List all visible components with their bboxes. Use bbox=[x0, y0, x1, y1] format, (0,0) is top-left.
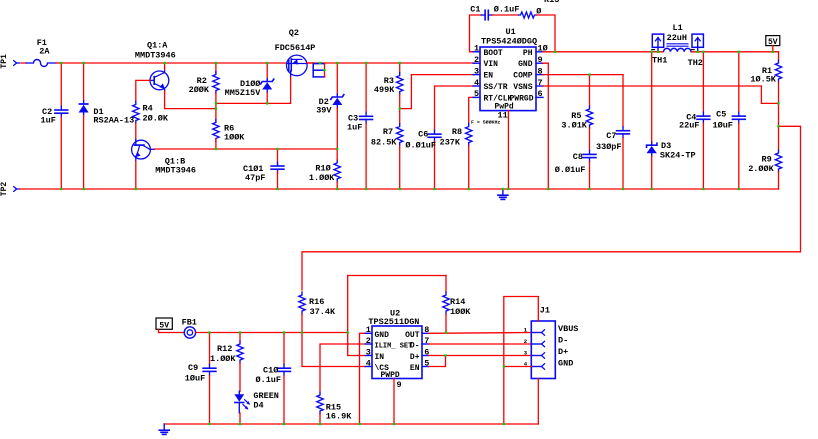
wire R7 bottom bbox=[399, 146, 401, 190]
svg-text:11: 11 bbox=[498, 111, 508, 121]
wire D1 top bbox=[83, 63, 85, 101]
svg-text:1uF: 1uF bbox=[347, 123, 362, 133]
svg-text:R8: R8 bbox=[452, 127, 462, 137]
junction PH TH1 bbox=[657, 51, 659, 53]
svg-text:TH1: TH1 bbox=[652, 55, 667, 65]
junction gnd2 R15 bbox=[319, 423, 321, 425]
wire OUT net bbox=[429, 332, 532, 335]
svg-text:D+: D+ bbox=[410, 353, 420, 362]
wire collector row bbox=[154, 148, 337, 150]
wire R4 to Q1:B base bbox=[135, 124, 137, 141]
resistor R14 bbox=[443, 292, 449, 314]
svg-text:C1Ø: C1Ø bbox=[263, 365, 278, 375]
svg-text:VSNS: VSNS bbox=[513, 83, 532, 92]
U1 right pin stubs bbox=[536, 51, 543, 53]
svg-text:Q1:A: Q1:A bbox=[147, 40, 168, 50]
J1 pin contacts bbox=[531, 332, 541, 334]
wire R5 top bbox=[589, 75, 591, 106]
svg-text:2: 2 bbox=[474, 55, 479, 65]
capacitor C101 bbox=[277, 162, 279, 166]
svg-text:R4: R4 bbox=[143, 104, 153, 114]
transistor Q2 bbox=[287, 55, 308, 76]
svg-text:R1Ø: R1Ø bbox=[315, 163, 330, 173]
connector J1 box bbox=[531, 321, 555, 379]
svg-text:IN: IN bbox=[375, 353, 385, 362]
wire C3 top bbox=[365, 63, 367, 112]
svg-text:GREEN: GREEN bbox=[253, 391, 279, 401]
junction gnd C101 bbox=[276, 188, 278, 190]
svg-text:1: 1 bbox=[474, 44, 479, 54]
wire D4 bottom bbox=[239, 413, 241, 424]
port TP1 bbox=[13, 60, 16, 66]
junction vrail R12 bbox=[239, 331, 241, 333]
wire C10 top bbox=[283, 333, 285, 365]
zener D100 bbox=[266, 79, 268, 82]
svg-text:5V: 5V bbox=[159, 321, 169, 330]
wire C9 top bbox=[209, 333, 211, 365]
svg-text:Ø.1uF: Ø.1uF bbox=[256, 375, 282, 385]
transistor Q1:A bbox=[150, 71, 169, 90]
svg-text:39V: 39V bbox=[316, 105, 332, 115]
svg-text:MMDT3946: MMDT3946 bbox=[155, 165, 196, 175]
svg-text:TPS2511DGN: TPS2511DGN bbox=[368, 317, 419, 327]
wire 5V stub bbox=[772, 46, 774, 52]
svg-text:5: 5 bbox=[474, 89, 479, 99]
capacitor C5 bbox=[738, 112, 740, 116]
wire fuse to rail bbox=[56, 62, 61, 64]
wire C5 bottom bbox=[738, 123, 740, 189]
junction gnd2 C9 bbox=[208, 423, 210, 425]
svg-text:FB1: FB1 bbox=[182, 318, 197, 328]
transistor Q1:B bbox=[132, 140, 151, 159]
svg-text:PH: PH bbox=[523, 49, 533, 58]
svg-text:R12: R12 bbox=[217, 344, 232, 354]
junction gnd D1 bbox=[82, 188, 84, 190]
wire J1 pin4 net bbox=[504, 366, 532, 368]
svg-text:COMP: COMP bbox=[513, 72, 532, 81]
wire Q1:B emitter to ground bbox=[135, 161, 137, 189]
junction R9 branch bbox=[777, 125, 779, 127]
svg-text:MMDT3946: MMDT3946 bbox=[135, 51, 176, 61]
svg-text:VIN: VIN bbox=[484, 60, 499, 69]
svg-text:D4: D4 bbox=[253, 401, 263, 411]
resistor R4 bbox=[133, 102, 139, 124]
svg-text:1ØØK: 1ØØK bbox=[224, 132, 245, 142]
svg-text:TP1: TP1 bbox=[0, 54, 9, 69]
junction PH R13 bbox=[554, 51, 556, 53]
junction OUT R14 bbox=[445, 331, 447, 333]
resistor R10 bbox=[334, 160, 340, 182]
junction gnd U1 pad bbox=[507, 188, 509, 190]
wire EN net U2 bbox=[429, 356, 446, 367]
junction drain bar 2 bbox=[323, 69, 325, 71]
svg-text:1.ØØK: 1.ØØK bbox=[210, 354, 236, 364]
junction rail C2 bbox=[60, 62, 62, 64]
wire Q1:A collector to rail bbox=[164, 63, 166, 69]
wire output rail bbox=[691, 51, 779, 53]
svg-text:BOOT: BOOT bbox=[484, 49, 503, 58]
junction gnd2 C10 bbox=[283, 423, 285, 425]
svg-text:SS/TR: SS/TR bbox=[484, 83, 508, 92]
wire R2-R6 mid bbox=[215, 94, 217, 123]
svg-text:MM5Z15V: MM5Z15V bbox=[225, 88, 262, 98]
Q2 drain pin bars bbox=[312, 63, 314, 77]
svg-text:C6: C6 bbox=[418, 129, 428, 139]
junction emitter row bbox=[215, 107, 217, 109]
wire input rail right of Q2 bbox=[307, 62, 475, 64]
wire IN net bbox=[348, 275, 446, 277]
svg-text:22uH: 22uH bbox=[667, 33, 687, 43]
wire C9 bottom bbox=[209, 375, 211, 424]
wire rail Q2 to drain bars bbox=[307, 62, 313, 64]
svg-text:1uF: 1uF bbox=[41, 116, 56, 126]
resistor R6 bbox=[213, 119, 219, 141]
capacitor C2 bbox=[60, 106, 62, 110]
capacitor C7 bbox=[622, 127, 624, 131]
svg-text:4: 4 bbox=[474, 78, 479, 88]
junction vrail IN bbox=[347, 331, 349, 333]
wire RT/CLK net bbox=[469, 97, 475, 123]
junction gnd U1 GND bbox=[547, 188, 549, 190]
wire J1 shell top bbox=[504, 297, 539, 425]
test point TH2 bbox=[692, 34, 703, 47]
resistor R8 bbox=[466, 124, 472, 146]
junction VSNS R1 bbox=[777, 102, 779, 104]
svg-text:GND: GND bbox=[375, 331, 390, 340]
svg-text:D-: D- bbox=[558, 336, 568, 346]
fuse F1 bbox=[26, 62, 33, 64]
svg-text:EN: EN bbox=[410, 364, 420, 373]
wire EN net bbox=[400, 75, 475, 109]
capacitor C9 bbox=[209, 364, 211, 368]
wire R15 bottom bbox=[319, 414, 321, 424]
ground under U1 bbox=[502, 189, 504, 195]
ground bottom left bbox=[163, 424, 165, 430]
wire gate row bbox=[216, 77, 291, 104]
junction gate row D100 bbox=[266, 102, 268, 104]
wire C101 bottom bbox=[277, 172, 279, 190]
svg-text:SK24-TP: SK24-TP bbox=[660, 151, 696, 161]
svg-text:C5: C5 bbox=[716, 110, 726, 120]
wire IN net vertical bbox=[348, 276, 366, 356]
resistor R3 bbox=[397, 73, 403, 95]
wire GND net U1 bbox=[543, 63, 548, 189]
wire SS/TR net bbox=[435, 86, 476, 130]
LED D4 bbox=[238, 391, 240, 394]
power port 5V input bbox=[156, 318, 172, 329]
svg-text:RS2AA-13: RS2AA-13 bbox=[93, 116, 134, 126]
svg-text:ILIM_ SET: ILIM_ SET bbox=[375, 343, 413, 351]
svg-text:R16: R16 bbox=[309, 297, 324, 307]
wire 5V rail bbox=[196, 332, 348, 334]
svg-text:3.Ø1K: 3.Ø1K bbox=[561, 121, 587, 131]
svg-text:R14: R14 bbox=[450, 297, 465, 307]
svg-text:Q2: Q2 bbox=[289, 28, 299, 38]
junction gnd R8 bbox=[468, 188, 470, 190]
svg-text:D+: D+ bbox=[558, 347, 568, 357]
wire R12 to D4 bbox=[239, 363, 241, 392]
resistor R12 bbox=[237, 341, 243, 363]
junction COMP R5 bbox=[588, 73, 590, 75]
junction rail C3 bbox=[365, 62, 367, 64]
svg-text:2A: 2A bbox=[39, 47, 50, 57]
wire input rail bbox=[61, 62, 286, 64]
U2 right pin stubs bbox=[422, 332, 429, 334]
junction rail R2 bbox=[215, 62, 217, 64]
wire R1 top bbox=[778, 52, 780, 60]
diode D3 bbox=[651, 142, 653, 145]
junction gnd2 D4 bbox=[239, 423, 241, 425]
svg-text:2: 2 bbox=[366, 336, 371, 346]
wire D2 bottom bbox=[336, 108, 338, 149]
wire C10 bottom bbox=[283, 375, 285, 424]
resistor R16 bbox=[299, 292, 305, 314]
capacitor C6 bbox=[434, 130, 436, 134]
wire D100 top bbox=[266, 63, 268, 81]
zener D2 bbox=[336, 94, 338, 97]
junction PH TH2 bbox=[697, 51, 699, 53]
svg-text:1ØuF: 1ØuF bbox=[185, 374, 205, 384]
junction rail D100 bbox=[266, 62, 268, 64]
svg-text:F = 5ØØKHz: F = 5ØØKHz bbox=[471, 119, 500, 126]
wire R3 top bbox=[399, 63, 401, 73]
resistor R7 bbox=[397, 124, 403, 146]
resistor R9 bbox=[775, 150, 781, 172]
inductor L1 bbox=[664, 48, 692, 51]
junction gate row R2R6 bbox=[215, 102, 217, 104]
svg-text:C8: C8 bbox=[573, 152, 583, 162]
wire feedback branch bbox=[302, 126, 801, 290]
wire R14 bottom bbox=[445, 314, 447, 333]
wire D+ net bbox=[429, 355, 532, 357]
junction gnd symbol bbox=[502, 188, 504, 190]
svg-text:Ø.Ø1uF: Ø.Ø1uF bbox=[555, 165, 586, 175]
capacitor C1 bbox=[481, 14, 485, 16]
junction gnd C7 bbox=[622, 188, 624, 190]
op-amp U2 TPS2511DGN box bbox=[372, 326, 422, 379]
svg-text:EN: EN bbox=[484, 72, 494, 81]
wire ground rail bbox=[20, 188, 779, 190]
junction drain bar 1 bbox=[319, 62, 321, 64]
wire R2 top bbox=[215, 63, 217, 74]
resistor R5 bbox=[586, 106, 592, 128]
svg-text:33ØpF: 33ØpF bbox=[596, 142, 622, 152]
junction gnd2 J1 bbox=[503, 423, 505, 425]
svg-text:82.5K: 82.5K bbox=[371, 137, 397, 147]
wire C1 to R13 bbox=[492, 14, 518, 16]
svg-text:TPS5424ØDGQ: TPS5424ØDGQ bbox=[481, 36, 537, 46]
junction collector row D2 bbox=[336, 148, 338, 150]
svg-text:3: 3 bbox=[366, 347, 371, 357]
wire R9 bottom bbox=[778, 172, 780, 189]
wire D- net bbox=[429, 343, 532, 345]
svg-text:GND: GND bbox=[558, 358, 573, 368]
svg-text:3: 3 bbox=[474, 66, 479, 76]
wire C8 bottom bbox=[589, 162, 591, 189]
U2 left pin stubs bbox=[365, 332, 372, 334]
svg-text:22uF: 22uF bbox=[679, 121, 699, 131]
junction vrail C9 bbox=[208, 331, 210, 333]
svg-text:2Ø.ØK: 2Ø.ØK bbox=[143, 114, 169, 124]
wire C6 bottom bbox=[434, 141, 436, 189]
wire R16 bottom bbox=[301, 314, 303, 333]
wire U2 pad stub bbox=[393, 379, 395, 425]
svg-text:2.ØØK: 2.ØØK bbox=[748, 164, 774, 174]
svg-text:1ØuF: 1ØuF bbox=[713, 121, 733, 131]
junction gnd C2 bbox=[60, 188, 62, 190]
junction gnd C3 bbox=[365, 188, 367, 190]
wire R10 bottom bbox=[336, 182, 338, 189]
wire C4 top bbox=[702, 52, 704, 112]
svg-text:47pF: 47pF bbox=[245, 173, 265, 183]
svg-text:1ØØK: 1ØØK bbox=[450, 307, 471, 317]
svg-text:C1: C1 bbox=[470, 4, 480, 14]
svg-text:9: 9 bbox=[397, 380, 402, 390]
wire Q1:A base to R4 bbox=[136, 80, 150, 101]
wire J1 shell bottom bbox=[537, 379, 539, 425]
wire C2 bottom bbox=[60, 117, 62, 189]
capacitor C3 bbox=[365, 112, 367, 116]
junction rail R3 bbox=[399, 62, 401, 64]
svg-text:499K: 499K bbox=[374, 85, 395, 95]
junction PH 5V bbox=[772, 51, 774, 53]
fuse F1 lead red bbox=[21, 62, 26, 64]
svg-text:J1: J1 bbox=[540, 306, 550, 316]
svg-text:D-: D- bbox=[410, 342, 420, 351]
wire C7 bottom bbox=[622, 138, 624, 189]
wire C2 top bbox=[60, 63, 62, 106]
diode D1 bbox=[83, 101, 85, 104]
U1 left pin stubs bbox=[473, 51, 480, 53]
junction rail Q1A bbox=[163, 62, 165, 64]
wire C4 bottom bbox=[702, 123, 704, 189]
junction gnd D3 bbox=[651, 188, 653, 190]
wire D1 bottom bbox=[83, 116, 85, 190]
junction rail D2 bbox=[336, 62, 338, 64]
junction J1 pin4 bbox=[503, 365, 505, 367]
wire U1 pad to ground bbox=[507, 111, 509, 189]
svg-text:PWPD: PWPD bbox=[381, 371, 400, 380]
wire R1 bottom bbox=[778, 82, 780, 103]
svg-text:9: 9 bbox=[538, 55, 543, 65]
test point TH1 bbox=[652, 34, 663, 47]
svg-text:Ø.1uF: Ø.1uF bbox=[494, 4, 520, 14]
svg-text:TP2: TP2 bbox=[0, 182, 9, 197]
svg-text:C7: C7 bbox=[606, 131, 616, 141]
wire R5 to C8 bbox=[589, 128, 591, 150]
wire COMP net bbox=[543, 74, 623, 76]
svg-text:37.4K: 37.4K bbox=[310, 307, 336, 317]
wire PH rail bbox=[543, 51, 664, 53]
resistor R15 bbox=[317, 392, 323, 414]
junction gnd Q1B bbox=[135, 188, 137, 190]
wire R14 top bbox=[445, 276, 447, 293]
wire R6 bottom bbox=[215, 139, 217, 149]
svg-text:GND: GND bbox=[518, 60, 533, 69]
op-amp U1 TPS54240DGQ box bbox=[480, 47, 536, 111]
junction gnd R10 bbox=[336, 188, 338, 190]
svg-text:C9: C9 bbox=[188, 363, 198, 373]
wire CS net bbox=[302, 333, 365, 367]
svg-text:1.ØØK: 1.ØØK bbox=[309, 173, 335, 183]
wire C3 bottom bbox=[365, 124, 367, 190]
ferrite bead FB1 bbox=[184, 327, 195, 338]
svg-text:1: 1 bbox=[366, 325, 371, 335]
junction collector row C101 bbox=[276, 148, 278, 150]
svg-text:4: 4 bbox=[366, 358, 371, 368]
svg-text:TH2: TH2 bbox=[688, 58, 703, 68]
capacitor C4 bbox=[702, 112, 704, 116]
junction gnd C6 bbox=[433, 188, 435, 190]
svg-text:1Ø.5K: 1Ø.5K bbox=[750, 75, 776, 85]
svg-text:R13: R13 bbox=[544, 0, 559, 5]
wire C101 top bbox=[277, 149, 279, 164]
junction gnd2 pad bbox=[393, 423, 395, 425]
wire R1-R9 mid bbox=[778, 103, 780, 150]
svg-text:FDC5614P: FDC5614P bbox=[275, 43, 316, 53]
junction gnd C8 bbox=[588, 188, 590, 190]
wire U2 GND net bbox=[360, 333, 366, 424]
wire D100 bottom bbox=[266, 93, 268, 104]
wire Q2 drain tie bbox=[324, 63, 326, 77]
wire bottom ground rail bbox=[164, 423, 538, 425]
svg-text:OUT: OUT bbox=[405, 331, 420, 340]
svg-text:6: 6 bbox=[538, 89, 543, 99]
junction D+ EN bbox=[444, 354, 446, 356]
junction PH D3 bbox=[651, 51, 653, 53]
capacitor C10 bbox=[283, 364, 285, 368]
power port 5V output bbox=[766, 36, 780, 46]
svg-text:L1: L1 bbox=[673, 23, 683, 33]
resistor R1 bbox=[775, 60, 781, 82]
wire R8 bottom bbox=[468, 146, 470, 189]
svg-text:7: 7 bbox=[538, 78, 543, 88]
junction gnd C4 bbox=[702, 188, 704, 190]
wire D2 top bbox=[336, 63, 338, 94]
wire R10 top bbox=[336, 149, 338, 160]
wire D3 top bbox=[651, 52, 653, 142]
wire VSNS net bbox=[543, 86, 779, 103]
junction R3 EN bbox=[399, 107, 401, 109]
svg-text:VBUS: VBUS bbox=[558, 324, 578, 334]
wire D3 bottom bbox=[651, 156, 653, 189]
svg-text:R7: R7 bbox=[383, 127, 393, 137]
capacitor C8 bbox=[589, 151, 591, 155]
resistor R13 bbox=[519, 12, 537, 18]
wire C7 top bbox=[622, 75, 624, 127]
wire Q1:A emitter row bbox=[165, 91, 216, 109]
port TP2 bbox=[13, 186, 16, 192]
wire R12 top bbox=[239, 333, 241, 342]
junction gnd R7 bbox=[399, 188, 401, 190]
wire C5 top bbox=[738, 52, 740, 112]
junction collector row R6 bbox=[215, 148, 217, 150]
junction PH C4 bbox=[702, 51, 704, 53]
junction gnd2 U2GND bbox=[358, 423, 360, 425]
wire 5V to FB1 bbox=[159, 329, 185, 332]
svg-text:2ØØK: 2ØØK bbox=[189, 85, 210, 95]
wire ILIM net bbox=[320, 344, 365, 391]
wire R13 to PH bbox=[537, 15, 556, 52]
junction PH C5 bbox=[738, 51, 740, 53]
svg-text:D3: D3 bbox=[661, 141, 671, 151]
svg-text:Ø.Ø1uF: Ø.Ø1uF bbox=[405, 141, 436, 151]
junction vrail R16 bbox=[301, 331, 303, 333]
svg-text:8: 8 bbox=[538, 66, 543, 76]
junction rail D1 bbox=[82, 62, 84, 64]
svg-text:237K: 237K bbox=[440, 138, 461, 148]
resistor R2 bbox=[213, 72, 219, 94]
